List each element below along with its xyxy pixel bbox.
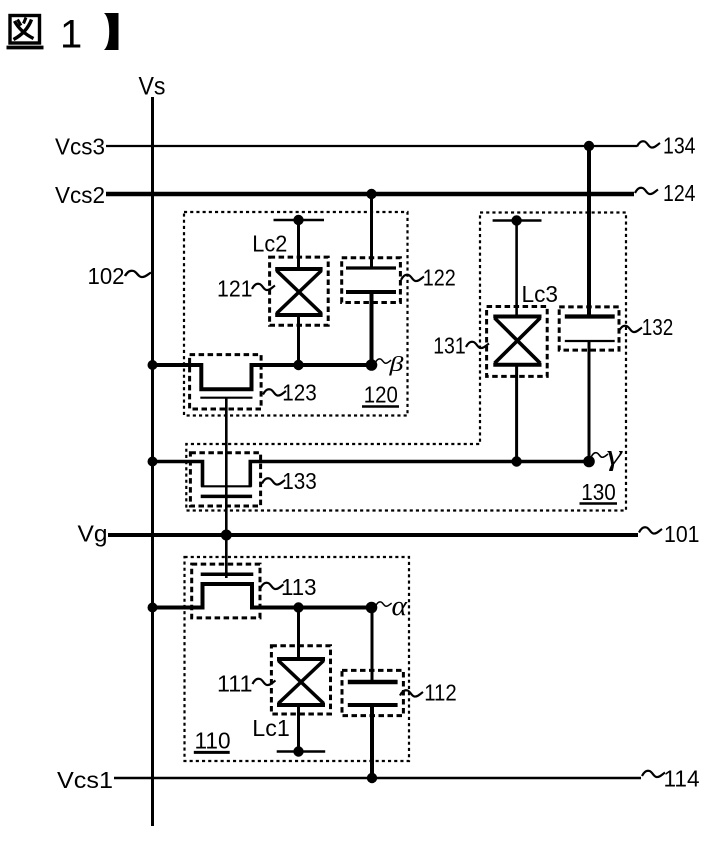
svg-text:Lc1: Lc1 — [252, 715, 289, 741]
svg-text:111: 111 — [217, 671, 253, 697]
svg-text:Vcs2: Vcs2 — [55, 182, 105, 208]
svg-text:Lc3: Lc3 — [522, 281, 559, 307]
svg-text:121: 121 — [217, 276, 253, 302]
svg-text:Vcs1: Vcs1 — [57, 767, 113, 793]
svg-text:130: 130 — [581, 479, 616, 505]
svg-text:113: 113 — [281, 574, 317, 600]
svg-text:β: β — [388, 353, 404, 376]
svg-text:120: 120 — [364, 382, 398, 408]
svg-text:134: 134 — [663, 133, 696, 159]
svg-text:133: 133 — [282, 468, 317, 494]
svg-text:131: 131 — [433, 333, 466, 359]
svg-text:132: 132 — [642, 314, 674, 340]
svg-text:112: 112 — [424, 680, 457, 706]
svg-text:124: 124 — [663, 180, 696, 206]
svg-text:114: 114 — [664, 766, 700, 792]
svg-text:110: 110 — [195, 728, 231, 754]
svg-text:122: 122 — [423, 265, 456, 291]
svg-text:γ: γ — [607, 438, 624, 472]
svg-text:Lc2: Lc2 — [252, 231, 287, 257]
svg-text:Vs: Vs — [139, 73, 166, 101]
svg-text:123: 123 — [282, 380, 317, 406]
svg-text:102: 102 — [88, 263, 125, 289]
svg-text:101: 101 — [664, 521, 700, 547]
svg-text:α: α — [392, 591, 408, 622]
svg-text:1: 1 — [60, 13, 82, 57]
svg-text:Vg: Vg — [78, 521, 108, 547]
svg-text:Vcs3: Vcs3 — [55, 134, 105, 160]
